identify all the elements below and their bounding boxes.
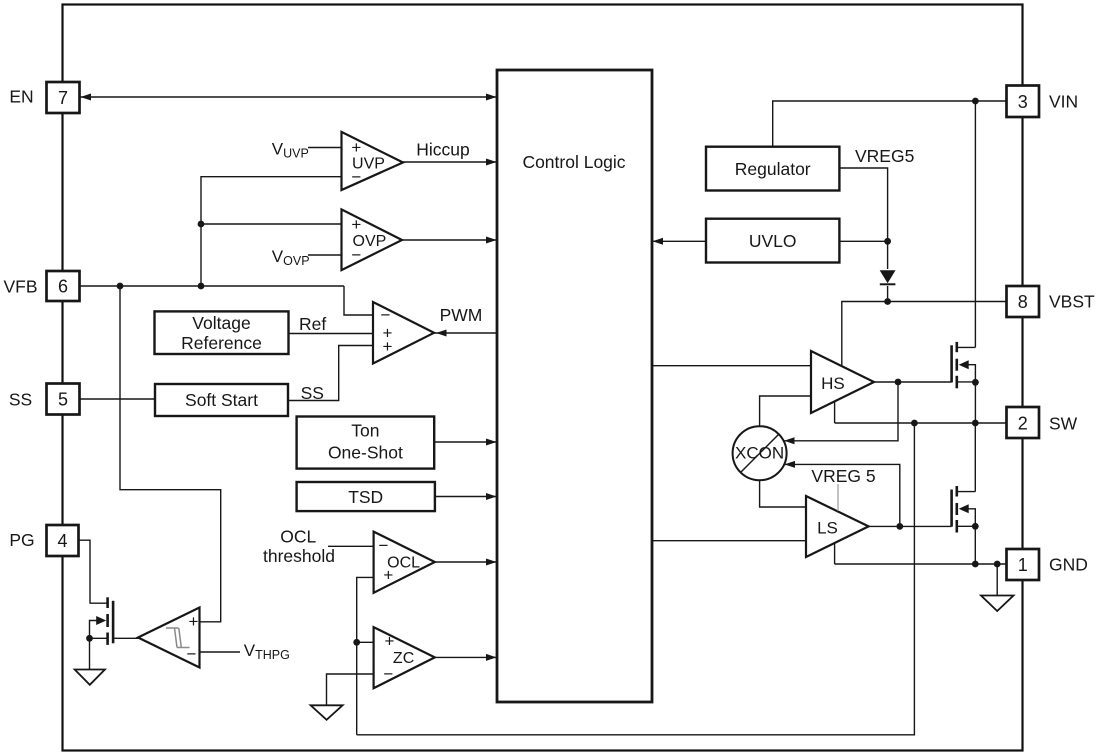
svg-text:+: + <box>189 612 199 631</box>
wire LS driver lower rail to GND line <box>834 543 836 564</box>
svg-text:Soft Start: Soft Start <box>185 390 258 410</box>
wire SS pin5 to Soft Start <box>80 398 155 400</box>
comparator UVP <box>342 132 404 190</box>
wire Control Logic to HS driver input <box>652 365 811 367</box>
svg-text:SW: SW <box>1049 413 1078 433</box>
svg-text:PWM: PWM <box>440 305 483 325</box>
node VFB-PG tap <box>117 283 124 290</box>
svg-text:Regulator: Regulator <box>735 159 811 179</box>
svg-text:+: + <box>383 566 393 585</box>
svg-text:GND: GND <box>1049 554 1088 574</box>
driver HS <box>811 351 874 413</box>
svg-text:8: 8 <box>1018 292 1028 312</box>
wire XCON output to HS input <box>760 396 811 427</box>
Control Logic block U1 <box>497 70 652 702</box>
svg-text:ZC: ZC <box>393 650 414 667</box>
svg-text:+: + <box>383 337 393 356</box>
node VBST-diode <box>884 298 891 305</box>
ground symbol below PG MOSFET <box>75 670 105 685</box>
arrow Ton into Control Logic <box>486 439 497 446</box>
wire V_THPG to PG comparator - input <box>200 651 241 653</box>
hysteresis symbol inside PG comparator <box>166 628 190 648</box>
svg-text:TSD: TSD <box>348 487 383 507</box>
wire Ref to PWM + input <box>289 333 373 335</box>
driver LS <box>806 496 869 557</box>
Soft Start block <box>155 384 288 416</box>
node LS source <box>972 523 979 530</box>
svg-text:LS: LS <box>817 519 838 538</box>
wire SS to PWM + input <box>288 346 373 401</box>
wire Hiccup UVP output to Control Logic <box>403 161 497 163</box>
wire OCL + input from SW sense line <box>357 577 374 734</box>
svg-text:VTHPG: VTHPG <box>244 641 290 662</box>
svg-text:−: − <box>351 246 361 265</box>
svg-text:7: 7 <box>58 88 68 108</box>
wire ZC + input <box>357 641 374 643</box>
svg-text:OCL: OCL <box>280 527 316 547</box>
svg-text:−: − <box>351 168 361 187</box>
svg-text:Voltage: Voltage <box>192 313 250 333</box>
wire diode cathode to VBST line <box>887 286 889 302</box>
arrow PWM at comparator output <box>436 330 447 337</box>
svg-text:4: 4 <box>57 531 67 551</box>
comparator ZC <box>374 627 435 688</box>
svg-text:Reference: Reference <box>181 333 262 353</box>
svg-text:Hiccup: Hiccup <box>416 140 470 160</box>
subscripted voltage labels <box>244 139 310 662</box>
pin box 4 PG <box>47 525 79 556</box>
node SW-MOSFET <box>972 420 979 427</box>
svg-text:XCON: XCON <box>735 443 784 462</box>
MOSFET HS (high side) <box>952 342 957 388</box>
svg-text:SS: SS <box>9 389 32 409</box>
Ton One-Shot block <box>297 417 435 469</box>
wire HS MOSFET drain to VIN <box>974 101 976 347</box>
svg-text:6: 6 <box>58 277 68 297</box>
arrow OVP into Control Logic <box>486 237 497 244</box>
diode D1 VREG5 to VBST <box>880 271 896 284</box>
arrow ZC into Control Logic <box>486 654 497 661</box>
svg-text:1: 1 <box>1018 555 1028 575</box>
wire EN pin7 to Control Logic <box>80 96 497 98</box>
pin box 6 VFB <box>47 271 80 301</box>
svg-text:VUVP: VUVP <box>272 139 309 160</box>
node VIN tap <box>972 98 979 105</box>
node OVP + tap <box>198 221 205 228</box>
wire Ton One-Shot output to Control Logic <box>434 441 497 443</box>
svg-text:+: + <box>351 215 361 234</box>
wire OCL output to Control Logic <box>435 561 497 563</box>
pin box 2 SW <box>1007 407 1040 438</box>
svg-text:3: 3 <box>1018 92 1028 112</box>
wire V_OVP to OVP - input <box>308 254 342 256</box>
wire PG MOSFET gate to comparator <box>113 637 139 639</box>
svg-text:Control Logic: Control Logic <box>522 152 625 172</box>
svg-text:SS: SS <box>301 383 324 403</box>
node LS gate <box>896 523 903 530</box>
node PG source <box>86 635 93 642</box>
wire V_UVP to UVP + input <box>308 147 342 149</box>
svg-text:−: − <box>383 665 393 684</box>
MOSFET LS (low side) <box>952 486 957 533</box>
svg-text:VBST: VBST <box>1049 292 1095 312</box>
TSD block <box>297 482 435 511</box>
svg-text:Ref: Ref <box>299 314 326 334</box>
svg-text:VREG5: VREG5 <box>855 146 914 166</box>
node ZC + tap <box>353 639 360 646</box>
MOSFET PG (open drain, mirrored) <box>108 597 114 645</box>
svg-text:UVLO: UVLO <box>749 231 797 251</box>
wire SW pin2 line <box>835 422 1007 424</box>
svg-text:2: 2 <box>1018 414 1028 434</box>
node GND line <box>972 561 979 568</box>
svg-text:5: 5 <box>58 390 68 410</box>
node SW sense <box>911 420 918 427</box>
comparator input polarity signs <box>187 138 395 684</box>
wire PG pin4 to MOSFET drain <box>77 540 90 603</box>
comparator PG (points left) <box>138 608 200 668</box>
wire Regulator VREG5 output down to UVLO node <box>839 168 887 269</box>
svg-text:One-Shot: One-Shot <box>328 443 403 463</box>
wire Control Logic to LS driver input <box>652 540 806 542</box>
arrowheads <box>81 94 796 661</box>
svg-text:Ton: Ton <box>351 421 379 441</box>
svg-text:−: − <box>187 645 197 664</box>
wire LS source down to GND line <box>974 526 976 564</box>
node HS source at SW <box>972 379 979 386</box>
wire HS driver output to HS gate <box>874 381 952 383</box>
pin box 3 VIN <box>1007 86 1040 118</box>
svg-text:VIN: VIN <box>1049 92 1078 112</box>
wire HS gate node to XCON input 1 <box>784 382 898 441</box>
wire LS driver output to LS gate <box>869 525 952 527</box>
pin box 7 EN <box>47 82 80 113</box>
comparator OVP <box>342 209 403 270</box>
XCON circle <box>733 426 787 480</box>
node HS gate <box>895 379 902 386</box>
svg-text:VOVP: VOVP <box>272 247 310 268</box>
ground symbol at GND pin <box>981 596 1014 612</box>
wire ZC output to Control Logic <box>435 656 497 658</box>
wire PWM output to Control Logic <box>434 332 497 334</box>
wire SW sense feedback bottom <box>357 423 915 735</box>
svg-text:PG: PG <box>9 530 34 550</box>
wire UVLO right to VREG5 node <box>839 240 887 242</box>
wire VFB node down to PG comparator + input <box>120 286 221 622</box>
UVLO block <box>706 219 839 263</box>
svg-text:−: − <box>381 306 391 325</box>
node GND ground tap <box>994 561 1001 568</box>
Regulator block <box>706 147 839 191</box>
pin box 5 SS <box>47 384 80 415</box>
node VREG5-UVLO <box>884 238 891 245</box>
svg-text:VREG 5: VREG 5 <box>811 466 875 486</box>
wire PG MOSFET source to ground <box>89 638 91 669</box>
VREG5 gray tie to LS driver <box>837 484 839 511</box>
arrow UVLO into Control Logic <box>653 238 664 245</box>
svg-text:+: + <box>351 138 361 157</box>
arrow OCL into Control Logic <box>486 559 497 566</box>
svg-text:VFB: VFB <box>3 276 37 296</box>
wire OVP output to Control Logic <box>402 239 497 241</box>
comparator OCL <box>374 532 435 593</box>
svg-text:HS: HS <box>821 374 845 393</box>
wire XCON output to LS input <box>760 480 806 507</box>
wire HS source down to SW <box>974 382 976 423</box>
svg-text:EN: EN <box>9 86 33 106</box>
wire GND pin1 line <box>835 563 1007 565</box>
wire VBST pin8 line to HS driver supply <box>842 302 1007 367</box>
Voltage Reference block <box>155 311 289 354</box>
wire ZC - input to ground <box>327 674 374 705</box>
XCON slash <box>741 435 779 473</box>
wire LS drain up to SW <box>974 423 976 492</box>
arrow XCON input 2 <box>785 461 796 468</box>
wire HS driver lower rail to SW <box>834 402 836 423</box>
arrow Hiccup into Control Logic <box>486 159 497 166</box>
wire VFB to PWM - input <box>344 286 373 315</box>
svg-text:−: − <box>379 536 389 555</box>
arrow EN into pin7 <box>81 94 92 101</box>
wire UVLO output to Control Logic <box>652 240 706 242</box>
wire GND to ground symbol <box>996 564 998 596</box>
wire OCL threshold to OCL - input <box>328 545 374 547</box>
pin box 1 GND <box>1007 549 1040 580</box>
arrow XCON input 1 <box>784 437 795 444</box>
wire OVP + input from node <box>201 223 342 225</box>
pin box 8 VBST <box>1007 286 1040 317</box>
wire UVP - input from VFB node <box>201 177 342 286</box>
arrow EN into Control Logic <box>486 94 497 101</box>
wire LS gate node to XCON input 2 <box>785 464 900 526</box>
svg-text:+: + <box>385 632 395 651</box>
wire TSD output to Control Logic <box>435 496 497 498</box>
wire VFB pin6 line <box>80 285 344 287</box>
comparator PWM <box>373 302 434 364</box>
node VFB-UVP/OVP tap <box>198 283 205 290</box>
ground symbol below ZC - input <box>311 705 343 720</box>
svg-text:threshold: threshold <box>263 546 335 566</box>
arrow TSD into Control Logic <box>486 493 497 500</box>
wire VIN line pin3 to Regulator top <box>773 101 1007 147</box>
